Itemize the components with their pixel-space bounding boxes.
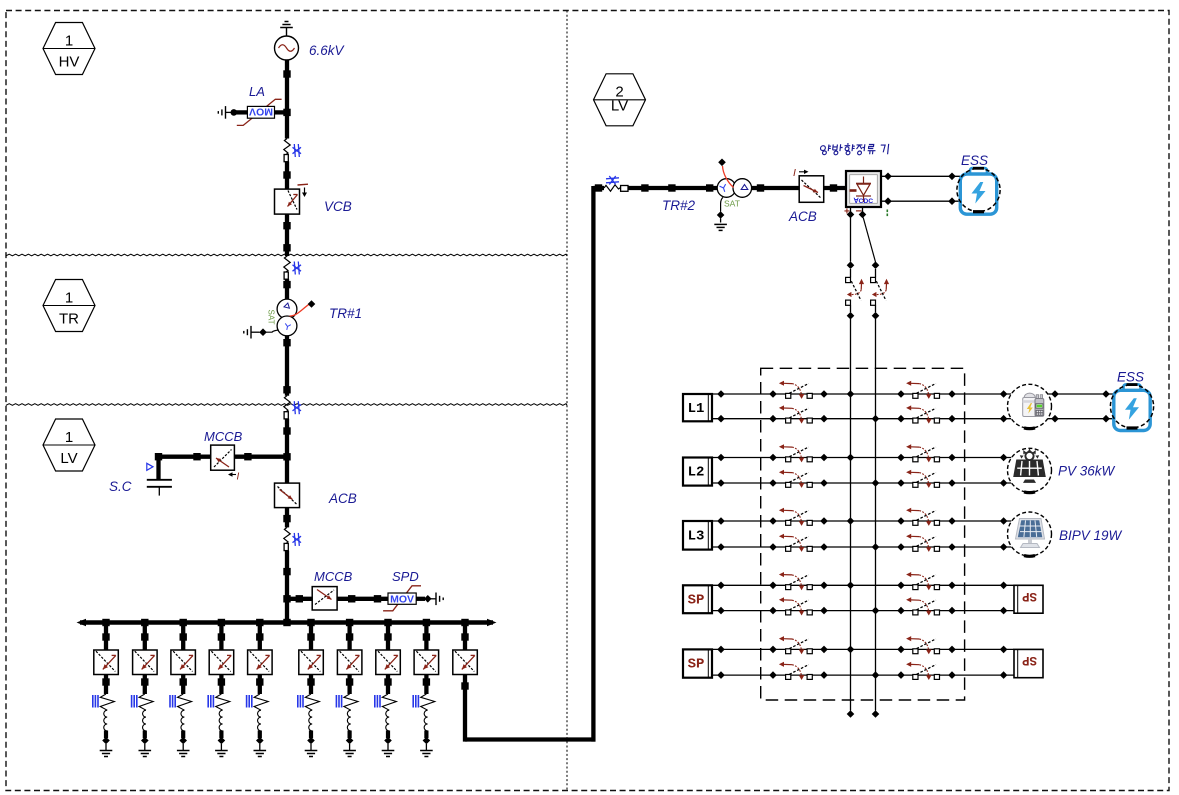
node box L1 (row 1 source box) — [683, 394, 712, 421]
wire row 1 bottom — [712, 415, 1011, 423]
switch row 2 bottom-right — [906, 470, 939, 488]
arrester SPD MOV — [383, 586, 421, 611]
converter DC/DC (양방향정류기) — [846, 171, 881, 207]
wire LA to ground — [226, 109, 248, 116]
feeder breaker CB8 — [376, 623, 401, 695]
fuse F2 — [284, 256, 301, 279]
wire SPD branch — [289, 595, 388, 602]
switch row 4 top-right — [906, 572, 939, 590]
load L1 — [93, 694, 115, 750]
feeder breaker CB5 — [248, 623, 273, 695]
switch row 1 top-right — [906, 381, 939, 399]
source G1 6.6kV — [275, 36, 299, 60]
arrester LA MOV — [237, 99, 282, 125]
ground (load L5) — [254, 750, 267, 752]
svg-text:PV 36kW: PV 36kW — [1058, 464, 1116, 479]
svg-text:SP: SP — [1022, 589, 1037, 603]
wire row 3 top — [712, 517, 1011, 525]
svg-text:I: I — [793, 167, 796, 179]
svg-text:S.C: S.C — [109, 479, 132, 494]
breaker ACB2 — [799, 176, 824, 203]
wire row 3 bottom — [712, 543, 1011, 551]
wire TR#2 to ACB — [752, 184, 800, 191]
switch row 1 bottom-right — [906, 405, 939, 423]
storage ESS (top) — [957, 168, 1000, 214]
svg-text:SAT: SAT — [267, 310, 276, 325]
ground (load L1) — [100, 750, 113, 752]
wire trunk to bus — [283, 551, 290, 623]
svg-text:TR#1: TR#1 — [329, 306, 362, 321]
svg-text:MCCB: MCCB — [204, 429, 243, 444]
section divider HV/TR (wavy) — [6, 254, 567, 256]
svg-text:6.6kV: 6.6kV — [309, 43, 346, 58]
ground (load L3) — [177, 750, 190, 752]
feeder breaker CB4 — [209, 623, 234, 695]
wire TR#1 tap (red) — [290, 300, 316, 316]
svg-text:VCB: VCB — [324, 199, 352, 214]
switch row 4 top-left — [779, 572, 812, 590]
fuse F4 — [284, 527, 301, 550]
wire row 5 bottom — [712, 671, 1014, 679]
svg-text:ACB: ACB — [788, 209, 817, 224]
section divider (vertical dotted) — [566, 11, 568, 791]
zone label hexagon 1 TR — [43, 280, 95, 332]
switch row 1 top-left — [779, 381, 812, 399]
ground (SPD) — [435, 593, 437, 606]
wire DC bus - (vertical) — [872, 319, 880, 718]
wire LA to trunk — [275, 110, 290, 114]
svg-text:ACB: ACB — [328, 491, 357, 506]
svg-text:I: I — [237, 472, 240, 483]
wire trunk above TR1 — [283, 279, 290, 299]
wire row 4 bottom — [712, 607, 1014, 615]
svg-text:MCCB: MCCB — [314, 569, 353, 584]
feeder breaker CB7 — [337, 623, 362, 695]
breaker MCCB2 — [312, 587, 337, 610]
svg-text:∀CDC: ∀CDC — [853, 197, 873, 205]
switch row 1 bottom-left — [779, 405, 812, 423]
transformer TR#1 — [277, 299, 297, 336]
wire trunk above VCB — [283, 162, 290, 190]
feeder breaker CB1 — [94, 623, 119, 695]
svg-text:SP: SP — [1022, 653, 1037, 667]
wire tie feeder to TR#2 — [461, 186, 595, 742]
switch row 5 bottom-left — [779, 662, 812, 680]
fuse F1 — [284, 139, 301, 162]
wire S.C branch — [155, 453, 287, 480]
wire row 2 top — [712, 454, 1011, 462]
feeder breaker CB2 — [133, 623, 158, 695]
switch row 5 top-right — [906, 636, 939, 654]
wire TR#2 neutral — [717, 197, 725, 222]
svg-text:1: 1 — [65, 290, 73, 307]
switch row 5 top-left — [779, 636, 812, 654]
fuse F3 — [284, 396, 301, 419]
label I (MCCB1) — [228, 472, 240, 483]
load L6 — [298, 694, 320, 750]
bus bar LV — [77, 619, 497, 627]
capacitor S.C — [147, 480, 172, 496]
node box L2 (row 2 source box) — [683, 458, 712, 486]
svg-text:SPD: SPD — [392, 569, 419, 584]
svg-text:LV: LV — [60, 450, 77, 467]
switch matrix enclosure (dashed) — [761, 368, 965, 700]
svg-text:L3: L3 — [688, 528, 705, 544]
svg-text:1: 1 — [65, 33, 73, 50]
switch row 3 top-right — [906, 508, 939, 526]
load L2 — [132, 694, 154, 750]
wire trunk HV upper — [283, 60, 290, 139]
svg-text:LA: LA — [249, 84, 265, 99]
wire fuse to TR#2 — [628, 184, 717, 191]
wire trunk below ACB — [283, 508, 290, 528]
load L3 — [170, 694, 192, 750]
switch DS- (DC) — [871, 261, 890, 319]
wire ACB to rectifier — [824, 184, 846, 191]
wire TR#2 tap (red) — [718, 159, 733, 188]
load L4 — [208, 694, 230, 750]
ground (source top) — [280, 22, 293, 37]
load L9 — [413, 694, 435, 750]
svg-text:BIPV 19W: BIPV 19W — [1059, 528, 1123, 543]
icon PV (L2) — [1008, 448, 1052, 492]
icon load-charger (L1) — [1008, 384, 1052, 428]
marker (S.C triangle) — [147, 463, 153, 470]
wire right main line — [593, 184, 604, 191]
node box SP (row 5 source box) — [683, 649, 712, 677]
breaker ACB1 — [275, 483, 300, 508]
wire row 5 top — [712, 646, 1014, 654]
switch DS+ (DC) — [846, 261, 865, 319]
wire row 2 bottom — [712, 479, 1011, 487]
switch row 2 top-right — [906, 444, 939, 462]
load L7 — [336, 694, 358, 750]
feeder breaker CB3 — [171, 623, 196, 695]
wire rectifier to ESS top — [881, 173, 960, 181]
wire trunk above ACB — [283, 419, 290, 484]
wire DC bus + (vertical) — [847, 319, 855, 718]
wire row 1 top — [712, 390, 1011, 398]
ground (load L7) — [343, 750, 356, 752]
icon BIPV (L3) — [1008, 512, 1052, 556]
svg-text:L1: L1 — [688, 401, 705, 417]
switch row 4 bottom-right — [906, 597, 939, 615]
ground (load L6) — [305, 750, 318, 752]
ground (load L8) — [382, 750, 395, 752]
label I arrow (ACB2) — [793, 167, 809, 179]
transformer TR#2 — [717, 179, 751, 198]
ground (load L9) — [420, 750, 433, 752]
switch row 3 bottom-right — [906, 534, 939, 552]
svg-text:MOV: MOV — [249, 106, 273, 118]
ground (LA) — [225, 106, 227, 119]
switch row 5 bottom-right — [906, 662, 939, 680]
load L5 — [247, 694, 269, 750]
label 양방향정류기 (rectifier) — [820, 144, 889, 155]
svg-text:ESS: ESS — [961, 153, 988, 168]
wire trunk below TR1 — [283, 336, 290, 396]
svg-text:MOV: MOV — [390, 594, 414, 606]
switch row 2 bottom-left — [779, 470, 812, 488]
wire trunk below VCB — [283, 214, 290, 256]
svg-text:1: 1 — [65, 429, 73, 446]
storage ESS (row L1) — [1110, 384, 1153, 430]
svg-text:HV: HV — [59, 54, 80, 71]
svg-text:ESS: ESS — [1117, 370, 1144, 385]
zone label hexagon 2 LV — [594, 74, 646, 126]
wire DC- drop — [859, 207, 876, 262]
zone label hexagon 1 HV — [43, 23, 95, 75]
feeder breaker CB6 — [299, 623, 324, 695]
label : (green) — [887, 210, 889, 217]
node box L3 (row 3 source box) — [683, 521, 712, 550]
node box SP (row 4 right) — [1014, 585, 1043, 613]
wire TR#1 neutral — [252, 328, 279, 336]
switch row 2 top-left — [779, 444, 812, 462]
wire rectifier to ESS bottom — [881, 197, 960, 205]
ground (load L4) — [215, 750, 228, 752]
fuse F5 (horizontal) — [604, 176, 628, 191]
breaker MCCB1 — [211, 445, 235, 470]
node box SP (row 5 right) — [1014, 649, 1043, 677]
switch row 3 top-left — [779, 508, 812, 526]
svg-text:SP: SP — [688, 657, 705, 673]
wire DC+ drop — [847, 207, 855, 262]
wire L1 to ESS — [1048, 390, 1115, 422]
wire SPD to ground — [416, 595, 436, 603]
svg-text:TR#2: TR#2 — [662, 198, 696, 213]
svg-text:LV: LV — [611, 98, 628, 115]
node box SP (row 4 source box) — [683, 585, 712, 613]
feeder breaker CB9 — [414, 623, 439, 695]
switch row 3 bottom-left — [779, 534, 812, 552]
ground (TR#2) — [714, 223, 727, 225]
load L8 — [375, 694, 397, 750]
section divider TR/LV (wavy) — [6, 404, 567, 406]
feeder breaker CB10 — [453, 623, 478, 675]
zone label hexagon 1 LV — [43, 419, 95, 471]
switch row 4 bottom-left — [779, 597, 812, 615]
svg-text:TR: TR — [59, 311, 79, 328]
breaker VCB — [275, 184, 309, 214]
svg-text:SP: SP — [688, 592, 705, 608]
ground (TR#1) — [250, 326, 252, 339]
wire row 4 top — [712, 582, 1014, 590]
node MOV junction — [283, 109, 290, 116]
ground (load L2) — [139, 750, 152, 752]
svg-text:L2: L2 — [688, 465, 705, 481]
svg-text:SAT: SAT — [724, 199, 740, 209]
